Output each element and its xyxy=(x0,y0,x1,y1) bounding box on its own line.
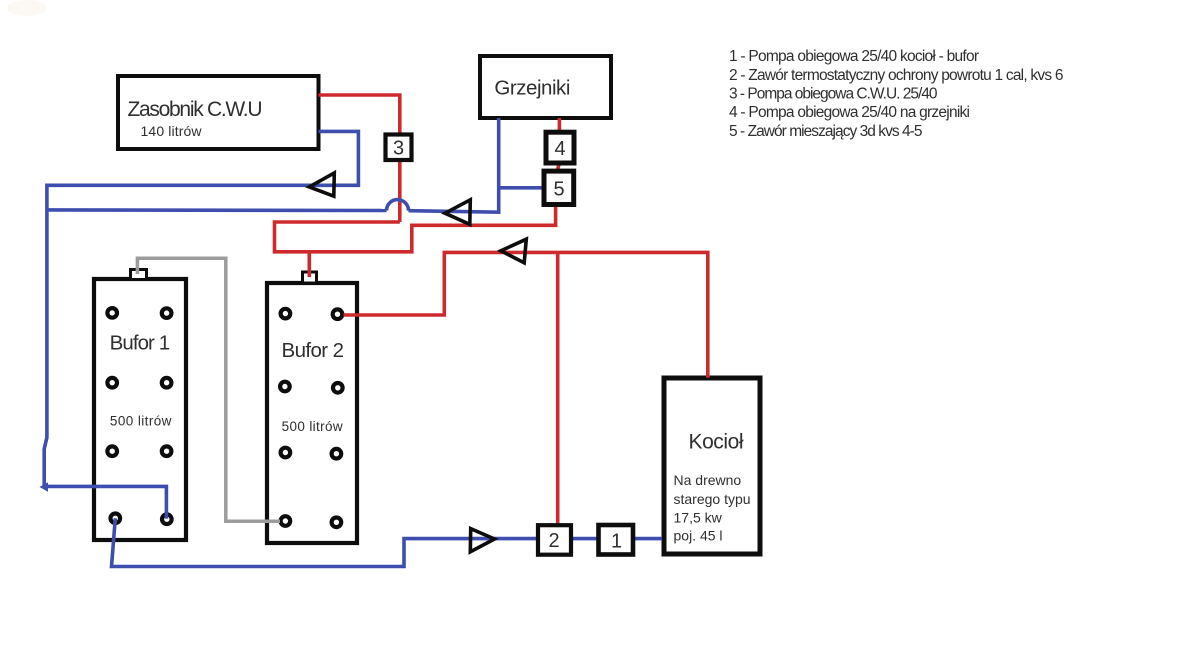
pump box 1 xyxy=(599,525,634,555)
blue pipe horizontal run to Grzejniki xyxy=(47,208,387,212)
blue pipe Bufor1 bottom to Kociol xyxy=(112,518,663,566)
smudge top-left xyxy=(7,0,47,16)
buffer tank Bufor 1 xyxy=(94,279,186,540)
svg-text:2 - Zawór termostatyczny ochro: 2 - Zawór termostatyczny ochrony powrotu… xyxy=(729,67,1064,84)
radiators Grzejniki xyxy=(480,56,611,118)
svg-text:4: 4 xyxy=(555,138,566,160)
flow arrow left on blue return xyxy=(309,173,334,196)
svg-text:5 - Zawór mieszający 3d kvs 4-: 5 - Zawór mieszający 3d kvs 4-5 xyxy=(729,123,923,140)
svg-text:Na drewno: Na drewno xyxy=(674,472,742,488)
port circles Bufor 2 xyxy=(280,309,343,527)
svg-text:Grzejniki: Grzejniki xyxy=(494,77,570,100)
blue crossover arc xyxy=(387,200,409,211)
svg-text:1 - Pompa obiegowa 25/40 kocio: 1 - Pompa obiegowa 25/40 kocioł - bufor xyxy=(729,48,979,65)
svg-text:500 litrów: 500 litrów xyxy=(110,413,172,428)
flow arrow right on blue bottom run xyxy=(470,529,494,552)
svg-text:2: 2 xyxy=(549,530,560,552)
svg-text:140 litrów: 140 litrów xyxy=(141,123,203,139)
valve box 5 xyxy=(544,171,574,204)
buffer tank Bufor 2 xyxy=(267,283,357,543)
svg-text:5: 5 xyxy=(554,179,565,201)
svg-text:3: 3 xyxy=(393,138,404,160)
red pipe Grzejniki to pump 4 xyxy=(558,118,562,132)
svg-text:Kocioł: Kocioł xyxy=(689,431,744,454)
gray pipe Bufor1 top to Bufor2 bottom-left port xyxy=(137,258,280,521)
flow arrow left on red Kociol supply xyxy=(501,239,527,263)
boiler Kociol xyxy=(664,378,760,554)
tank Zasobnik C.W.U xyxy=(118,76,319,149)
red pipe Zasobnik to valve 3 and down xyxy=(319,95,400,222)
red pipe zigzag from valve3 drop to mixing valve 5 xyxy=(275,204,556,252)
fitting nub on Bufor 1 xyxy=(131,270,147,280)
svg-text:3 - Pompa obiegowa C.W.U. 25/4: 3 - Pompa obiegowa C.W.U. 25/40 xyxy=(729,86,938,103)
red pipe Kociol supply to Bufor 2 top-right port xyxy=(344,252,708,377)
fitting nub on Bufor 2 xyxy=(303,272,317,283)
svg-text:Zasobnik C.W.U: Zasobnik C.W.U xyxy=(128,98,263,121)
blue branch to valve 5 xyxy=(499,186,544,190)
svg-text:500 litrów: 500 litrów xyxy=(282,419,343,434)
svg-text:4 - Pompa obiegowa 25/40 na gr: 4 - Pompa obiegowa 25/40 na grzejniki xyxy=(729,104,970,121)
valve box 2 xyxy=(538,525,571,555)
red pipe down to valve 2 xyxy=(556,252,560,525)
small blue arrow head at left corner xyxy=(40,482,49,491)
red branch to Bufor 2 top nub xyxy=(307,252,311,277)
port circles Bufor 1 xyxy=(107,308,171,524)
blue pipe Zasobnik return long run to Bufor1 bottom-right port xyxy=(44,131,358,518)
svg-text:1: 1 xyxy=(611,530,622,552)
svg-text:Bufor 1: Bufor 1 xyxy=(110,332,171,355)
wire xyxy=(409,118,499,212)
red pipe pump 4 to valve 5 xyxy=(557,163,559,171)
svg-text:poj. 45 l: poj. 45 l xyxy=(674,528,723,544)
pump box 4 xyxy=(546,132,574,163)
legend xyxy=(729,48,1064,140)
svg-text:17,5 kw: 17,5 kw xyxy=(674,510,723,526)
flow arrow left on blue to Grzejniki xyxy=(445,200,470,225)
pump box 3 xyxy=(386,135,412,161)
svg-text:Bufor 2: Bufor 2 xyxy=(282,339,345,362)
svg-text:starego typu: starego typu xyxy=(674,491,751,507)
